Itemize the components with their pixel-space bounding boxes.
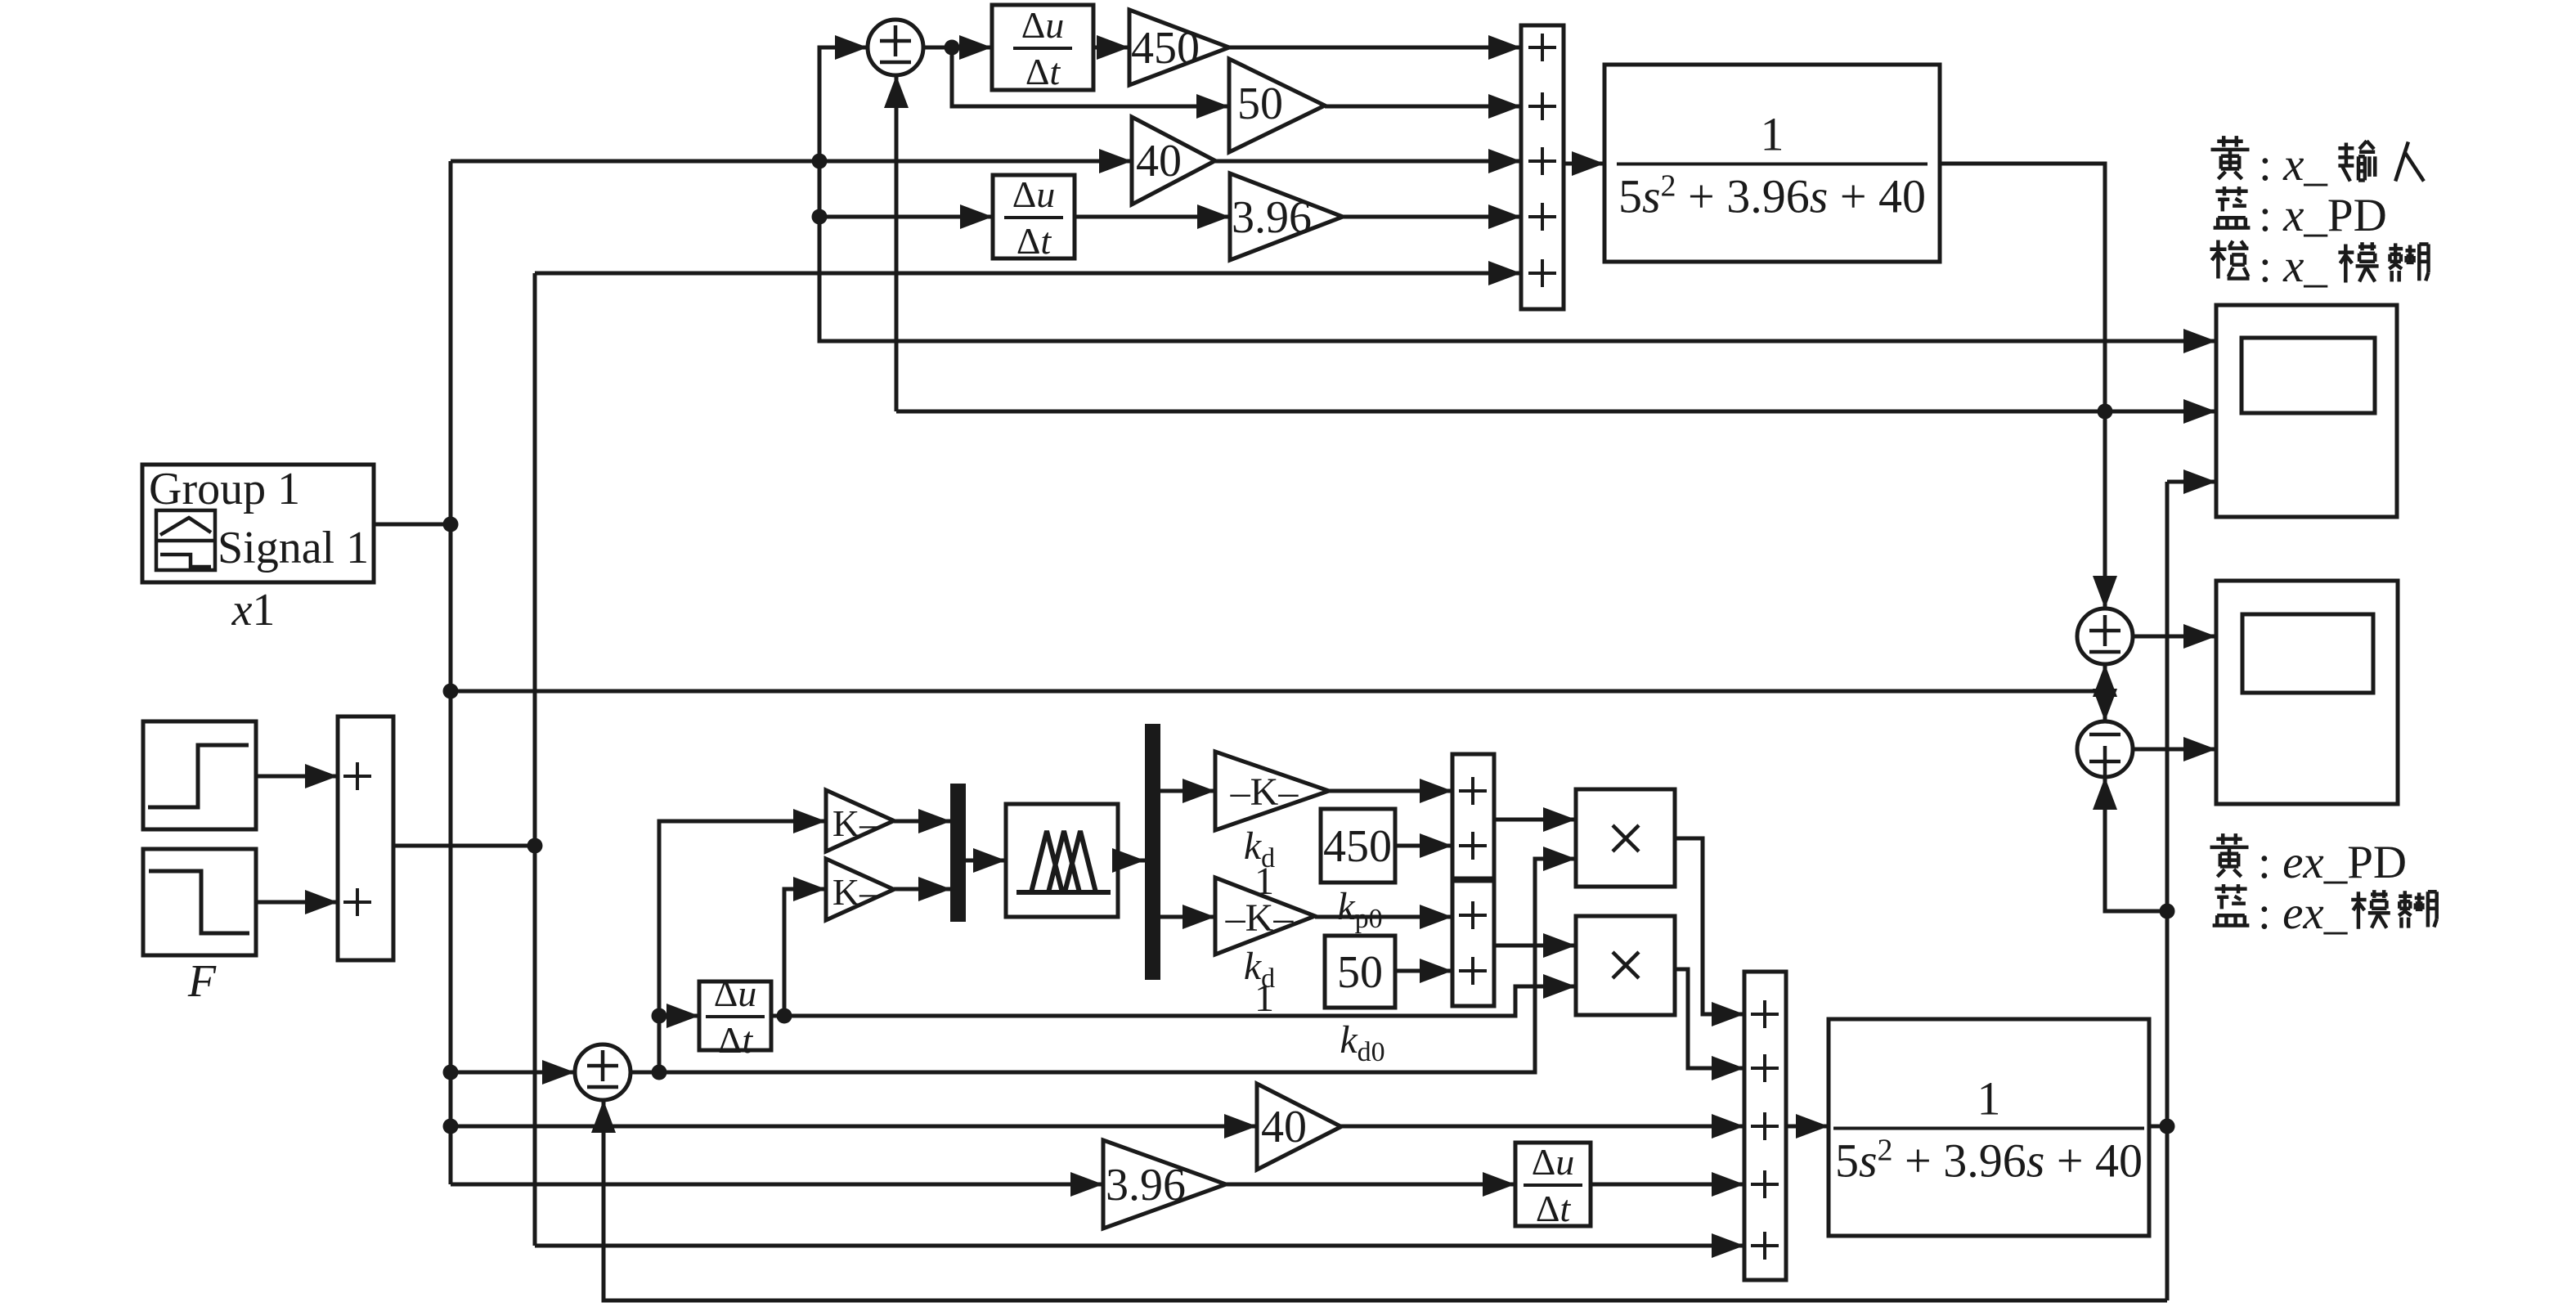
wire top sum circle to derivative [923,35,992,60]
wire step F1 to sum F [256,764,338,788]
step source block F2 [143,849,256,955]
svg-text:x1: x1 [231,585,276,636]
wire x_fuzzy vertical bus [2165,482,2170,1300]
wire top sum to transfer fcn 1 [1564,151,1604,176]
wire lower error up to gain K1 [659,809,826,1072]
gain triangle 40 bottom [1257,1084,1341,1170]
product block B (kd*de) [1576,916,1675,1015]
wire x_PD feedback to top sum circle bottom [884,75,909,411]
wire sum B to product B [1494,933,1576,958]
wire fuzzy controller to demux [1112,848,1145,873]
scope block 1 [2216,305,2397,517]
svg-text:Δt: Δt [1016,220,1052,262]
svg-text:3.96: 3.96 [1232,192,1312,243]
sum block F (+ +) [338,716,393,960]
svg-text:40: 40 [1136,136,1182,186]
wire K1 to mux [894,809,951,833]
wire du/dt 1 to gain 450 [1093,35,1129,60]
junction dot x1 branch to du/dt 2 [812,209,828,225]
wire error derivative to product B input 2 [784,974,1576,1016]
label kd0 [1340,1018,1384,1067]
svg-text:Δt: Δt [718,1019,754,1061]
wire error to du/dt 3 [659,1004,699,1028]
sum block B (kd total) [1452,881,1494,1006]
wire sum D to scope2 input 2 [2133,737,2216,761]
svg-text:–K–: –K– [1230,770,1299,814]
junction dot error branch to gain 50 [945,40,960,56]
junction dot lower error branch [652,1065,667,1080]
wire x1 to bottom gain 3.96 [451,1172,1103,1197]
label kp0 [1337,885,1382,934]
svg-text:Δu: Δu [1012,173,1056,215]
transfer function block 1 (1/(5s^2+3.96s+40)) [1604,65,1940,262]
wire product A to bottom sum input 1 [1675,838,1744,1026]
wire x1 bus vertical [449,161,453,1184]
wire x_fuzzy branch to sum D bottom [2093,777,2167,911]
svg-text:40: 40 [1261,1102,1307,1152]
wire step F2 to sum F [256,890,338,914]
demux bar [1145,724,1160,980]
product block A (kp*e) [1576,789,1675,887]
constant block 450 (kp0) [1321,809,1395,883]
svg-text:: x_: : x_ [2259,240,2327,292]
wire K2 to mux [894,877,951,901]
wire x1 to top gain 40 [451,149,1132,173]
derivative block du/dt 1 [992,4,1093,92]
wire gain 3.96 bottom to du/dt 4 [1226,1172,1515,1197]
label kd1 lower [1244,945,1275,1020]
svg-text:–K–: –K– [1225,896,1295,940]
svg-text:50: 50 [1237,79,1283,129]
junction dot x_PD tap [2098,404,2113,420]
wire x_fuzzy feedback to lower sum circle [591,1100,2167,1300]
legend scope1 line2 (blue: x_PD) [2214,186,2387,241]
legend scope1 line1 (yellow: x_input) [2211,136,2424,191]
svg-text:K–: K– [832,871,879,913]
wire gain 450 to top sum [1229,35,1521,60]
junction dot x1 branch up to top sum circle [812,154,828,169]
gain triangle 450 [1129,10,1229,85]
wire demux out1 to gain kd1 upper [1160,779,1215,803]
junction dot error to du/dt 3 [652,1008,667,1024]
wire sum A to product A [1494,807,1576,832]
wire x_PD line to scope1 input 2 [896,399,2216,424]
svg-text:Δt: Δt [1025,51,1061,92]
wire gain 40 to top sum [1215,149,1521,173]
sum circle top (plus minus) [868,20,923,75]
junction dot x1 to lower sum [443,1065,459,1080]
svg-text:: x_PD: : x_PD [2259,190,2387,241]
wire sum C to scope2 input 1 [2133,624,2216,649]
signal builder source block x1 (Group 1 / Signal 1) [142,464,374,582]
junction dot x_fuzzy to sum D [2160,904,2175,919]
junction dot x1 to ex line [443,684,459,699]
wire transfer fcn 1 output x_PD [1940,164,2117,609]
legend scope1 line3 (orange: x_fuzzy) [2210,240,2428,293]
wire x1 up to top sum circle [819,35,868,161]
svg-text:: ex_: : ex_ [2258,887,2348,939]
sum block bottom (5 inputs) [1744,972,1786,1280]
wire sum F output to F bus [393,844,535,848]
wire gain 40 bottom to bottom sum input 3 [1341,1114,1744,1139]
label x1 [231,585,276,636]
svg-text:Δt: Δt [1536,1188,1572,1229]
transfer function block 2 (1/(5s^2+3.96s+40)) [1829,1019,2149,1236]
wire error derivative up to gain K2 [784,877,826,1016]
svg-text:Group 1: Group 1 [149,464,300,514]
junction dot x1 at ex sum circles [2098,684,2113,699]
arrow x1 into sum C bottom [2093,664,2117,697]
wire x1 down to scope1 input 1 [819,161,2216,353]
sum circle C (x_PD minus x1) [2077,609,2133,664]
svg-text:K–: K– [832,802,879,844]
wire lower error to product A input 2 [631,847,1576,1072]
wire du/dt 3 output [771,1014,784,1018]
junction dot x_fuzzy at transfer fcn 2 output [2160,1119,2175,1134]
svg-text:1: 1 [1761,108,1784,161]
wire constant 450 to sum A [1395,833,1452,858]
wire x_fuzzy to scope1 input 3 [2167,469,2216,494]
gain triangle 50 [1229,59,1325,152]
wire du/dt 4 to bottom sum input 4 [1591,1172,1744,1197]
mux bar [950,784,966,922]
svg-text:Signal 1: Signal 1 [218,523,369,573]
gain triangle -K- lower (kd1) [1215,878,1315,954]
gain triangle 3.96 top [1230,173,1343,260]
wire -K- upper to sum A [1329,779,1452,803]
svg-text:1: 1 [1977,1072,2001,1125]
junction dot error derivative branch [777,1008,792,1024]
sum block A (kp total) [1452,754,1494,878]
wire du/dt 2 to gain 3.96 [1075,204,1230,229]
constant block 50 (kd0) [1325,936,1395,1008]
wire x1 to bottom gain 40 [450,1114,1257,1139]
wire x1 line to ex sum circles [451,689,2105,694]
wire bottom sum to transfer fcn 2 [1786,1114,1829,1139]
wire product B to bottom sum input 2 [1675,969,1744,1080]
scope block 2 [2216,581,2398,804]
wire mux to fuzzy controller [966,848,1006,873]
svg-text:3.96: 3.96 [1106,1160,1186,1210]
junction dot x1 bus at source [443,517,459,532]
svg-text:Δu: Δu [714,972,757,1014]
derivative block du/dt 2 [993,173,1075,262]
junction dot F bus [527,838,543,854]
wire gain 50 to top sum [1325,94,1521,119]
wire F to bottom sum [535,1233,1744,1258]
svg-text:50: 50 [1337,947,1383,998]
gain triangle 40 top [1132,117,1215,204]
wire x1 source to vertical bus [374,523,451,527]
wire x1 to lower sum circle [450,1060,575,1085]
wire demux out2 to gain kd1 lower [1160,905,1215,929]
gain triangle 3.96 bottom [1103,1140,1226,1228]
svg-text:450: 450 [1131,23,1200,74]
wire transfer fcn 2 output x_fuzzy [2149,1125,2167,1129]
arrow x1 into sum D top [2093,689,2117,721]
legend scope2 line1 (yellow: ex_PD) [2210,833,2408,888]
sum circle D (x1 minus x_fuzzy) [2077,721,2133,777]
wire F to top sum [535,261,1521,285]
gain triangle K1 (error scale) [826,790,894,851]
sum circle lower (plus minus) [575,1044,631,1100]
label F [187,956,217,1007]
derivative block du/dt 3 [699,972,771,1061]
gain triangle -K- upper (kd1) [1215,752,1329,830]
svg-text:F: F [187,956,217,1007]
wire -K- lower to sum B [1315,905,1452,929]
svg-text:Δu: Δu [1532,1141,1575,1183]
sum block top (5 inputs) [1521,25,1564,309]
junction dot x1 to bottom gain 40 [443,1119,459,1134]
gain triangle K2 (derivative scale) [826,859,894,920]
svg-text:1: 1 [1254,977,1274,1020]
wire constant 50 to sum B [1395,959,1452,983]
svg-text:450: 450 [1323,821,1392,872]
label kd1 upper [1244,824,1275,903]
svg-text:Δu: Δu [1021,4,1065,46]
svg-text:: ex_PD: : ex_PD [2258,837,2407,888]
wire x1 to du/dt 2 [819,204,993,229]
step source block F1 [143,721,256,829]
wire gain 3.96 to top sum [1343,204,1521,229]
wire F bus vertical [533,273,537,1246]
legend scope2 line2 (blue: ex_fuzzy) [2213,884,2437,939]
svg-text:: x_: : x_ [2259,139,2327,191]
derivative block du/dt 4 [1515,1141,1591,1229]
fuzzy logic controller block [1006,804,1118,917]
wire error bypass to gain 50 [952,47,1229,119]
